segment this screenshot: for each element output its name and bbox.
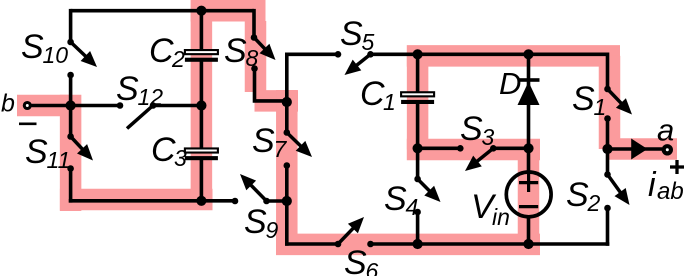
wire C1 column bottom: [416, 104, 420, 149]
svg-text:a: a: [657, 113, 674, 148]
wire mid rail: [371, 52, 608, 56]
wire S10 drop: [69, 9, 73, 42]
svg-text:3: 3: [482, 124, 495, 150]
svg-text:S: S: [252, 122, 275, 160]
wire C column bottom: [200, 160, 204, 201]
wire Vin top lead: [527, 148, 531, 172]
svg-text:S: S: [460, 110, 483, 148]
wire C column top: [200, 11, 204, 50]
svg-text:1: 1: [383, 89, 396, 115]
highlighted path segment: bottom-left rail: [60, 189, 213, 211]
highlighted path segment: C2/C3 column: [191, 11, 213, 210]
wire C1 column top: [416, 54, 420, 92]
svg-text:8: 8: [246, 45, 259, 71]
switch S5: [352, 54, 370, 69]
terminal b: [24, 103, 30, 109]
svg-text:S: S: [116, 70, 139, 108]
highlighted path segment: b wire: [17, 95, 71, 117]
svg-text:11: 11: [47, 147, 71, 173]
wire S8 lower link: [255, 69, 287, 101]
wire diode column: [527, 54, 531, 148]
switch S10: [71, 42, 90, 60]
highlighted path segment: left column: [60, 95, 82, 211]
svg-text:b: b: [1, 90, 15, 118]
capacitor C2: [185, 50, 218, 54]
wire C column middle: [200, 62, 204, 149]
highlighted path segment: S1 column: [599, 56, 621, 149]
svg-text:10: 10: [43, 42, 69, 68]
svg-text:S: S: [244, 203, 267, 241]
voltage source Vin: [506, 172, 551, 217]
svg-text:S: S: [21, 28, 44, 66]
plus sign at a: [670, 165, 684, 168]
wire Vin bottom lead: [527, 217, 531, 246]
svg-text:12: 12: [138, 84, 164, 110]
switch S12: [127, 106, 153, 129]
switch S1: [608, 89, 626, 107]
svg-text:in: in: [492, 204, 510, 230]
svg-text:C: C: [149, 32, 174, 70]
switch S4: [418, 179, 434, 195]
svg-text:7: 7: [274, 136, 288, 162]
wire S12 to C column: [153, 104, 201, 108]
junction nodes: [196, 6, 206, 16]
highlighted path segment: S8 link: [255, 90, 299, 112]
terminal a: [664, 146, 671, 153]
svg-text:S: S: [384, 180, 407, 218]
wire corner down to S8: [252, 9, 256, 38]
svg-text:ab: ab: [657, 178, 684, 205]
capacitor C3: [185, 148, 218, 152]
wire S1 column top: [606, 53, 610, 90]
svg-text:S: S: [566, 176, 589, 214]
wire left column upper: [69, 75, 73, 137]
diode D: [518, 78, 540, 82]
wire bottom rail left piece: [285, 242, 338, 246]
svg-text:9: 9: [266, 217, 279, 243]
wire S3 right: [493, 147, 528, 151]
highlighted path segment: bottom rail: [276, 234, 540, 256]
svg-text:S: S: [340, 15, 363, 53]
switch S7: [287, 133, 305, 151]
highlighted path segment: Vin column: [518, 150, 540, 245]
svg-text:2: 2: [171, 46, 185, 72]
svg-text:4: 4: [406, 194, 419, 220]
svg-text:5: 5: [362, 29, 375, 55]
wire S1-S2 middle column: [606, 119, 610, 175]
svg-text:S: S: [344, 244, 367, 276]
svg-text:C: C: [360, 75, 385, 113]
highlighted path segment: top-right rail: [407, 45, 620, 67]
svg-text:S: S: [572, 80, 595, 118]
highlighted path segment: C1 column: [407, 56, 429, 150]
svg-text:3: 3: [174, 145, 187, 171]
wire S4 column upper: [416, 148, 420, 179]
svg-text:S: S: [25, 133, 48, 171]
svg-text:1: 1: [594, 94, 607, 120]
highlighted path segment: output wire: [608, 138, 678, 160]
wire bottom rail right piece: [371, 242, 610, 246]
minus sign at b: [19, 123, 37, 126]
wire S11 to bottom rail: [69, 169, 73, 203]
highlighted path segment: S8 blade: [245, 21, 267, 92]
wire from terminal b: [30, 104, 120, 108]
wire S7 column upper: [285, 53, 289, 133]
wire S2 column bottom: [606, 208, 610, 246]
wire S3 left: [418, 147, 461, 151]
switch S8: [254, 38, 269, 53]
wire S4 column lower: [416, 212, 420, 244]
capacitor C1: [401, 92, 434, 96]
svg-text:D: D: [499, 66, 521, 101]
highlighted path segment: top rail: [191, 0, 266, 21]
highlighted path segment: S3 wire: [407, 139, 540, 161]
wire top-left rail: [71, 9, 254, 13]
wire S9 pivot link: [267, 199, 287, 203]
highlighted path segment: S7 column: [276, 90, 298, 255]
switch S6: [338, 224, 357, 244]
wire corner to S5: [287, 52, 338, 56]
svg-text:2: 2: [587, 190, 601, 216]
wire output to a: [608, 147, 663, 151]
svg-text:C: C: [151, 131, 176, 169]
svg-text:6: 6: [366, 258, 379, 276]
switch S2: [608, 175, 624, 197]
wire bottom-left rail: [69, 199, 235, 203]
wire S7 column lower: [285, 166, 289, 246]
switch S11: [71, 137, 87, 154]
switch S9: [247, 181, 267, 201]
switch S3: [473, 148, 494, 164]
output current arrow: [631, 139, 647, 160]
svg-text:S: S: [224, 32, 247, 70]
